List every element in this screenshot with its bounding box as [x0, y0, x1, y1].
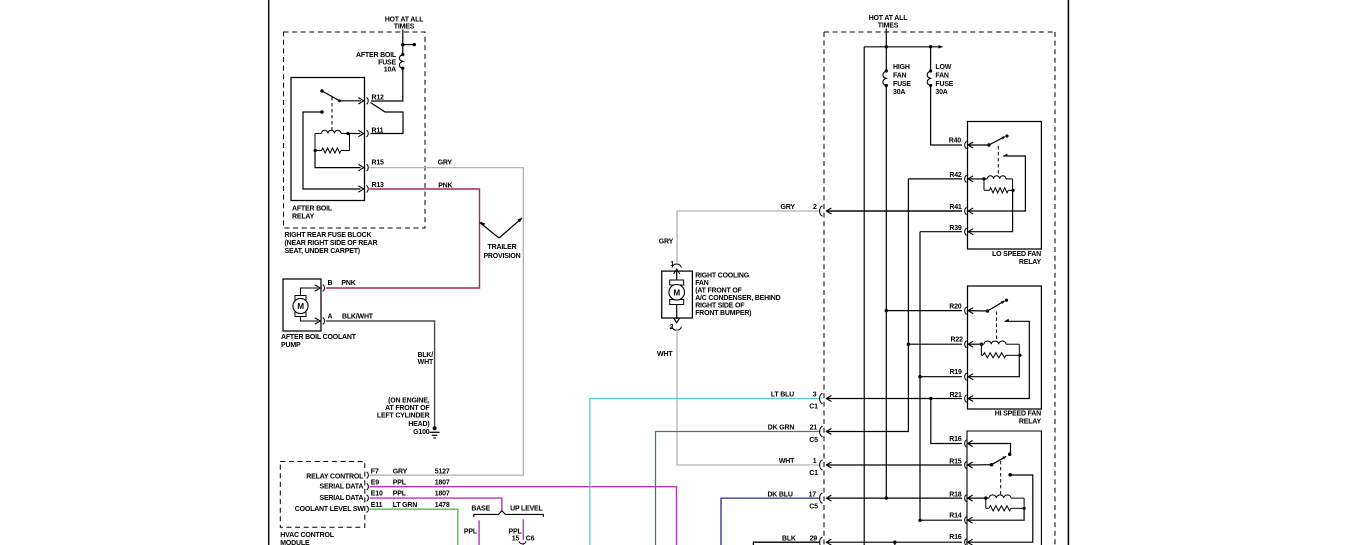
- svg-text:10A: 10A: [384, 66, 396, 73]
- svg-text:R41: R41: [949, 204, 962, 211]
- lo relay pin R41: [965, 208, 967, 215]
- after boil relay: coil left node to R15: [315, 151, 361, 168]
- svg-text:30A: 30A: [893, 89, 905, 96]
- svg-text:FUSE: FUSE: [378, 59, 396, 66]
- svg-text:MODULE: MODULE: [280, 540, 310, 545]
- svg-text:AFTER BOIL: AFTER BOIL: [356, 52, 397, 59]
- svg-text:F7: F7: [371, 468, 379, 475]
- wire: R39 wire: [920, 231, 962, 233]
- hi relay armature dashed: [996, 312, 998, 342]
- svg-text:TIMES: TIMES: [878, 22, 899, 29]
- svg-text:1478: 1478: [435, 502, 450, 509]
- svg-text:LO SPEED FAN: LO SPEED FAN: [992, 251, 1041, 258]
- wire LT GRN: E11 coolant level switch: [370, 509, 458, 545]
- svg-text:C1: C1: [809, 404, 818, 411]
- wire WHT: fan pin 2 to fuse block pin 1: [677, 329, 820, 466]
- svg-text:2: 2: [813, 204, 817, 211]
- third relay NO contact to R16 bottom: [1008, 473, 1012, 477]
- dashed box: HVAC CONTROL MODULE: [280, 462, 365, 528]
- hvac pin E11: [367, 506, 369, 512]
- wire PPL: uplevel branch with C6 pin 15 connector: [522, 519, 524, 540]
- svg-text:PPL: PPL: [464, 528, 478, 535]
- ground G100 symbol: [433, 426, 437, 430]
- svg-text:R16: R16: [949, 436, 962, 443]
- svg-text:R21: R21: [949, 392, 962, 399]
- svg-text:PNK: PNK: [438, 183, 452, 190]
- svg-text:M: M: [297, 302, 304, 311]
- svg-text:FAN: FAN: [893, 73, 907, 80]
- wire PPL: E10 serial data to base/uplevel: [370, 498, 502, 510]
- lo speed fan relay box: [968, 122, 1042, 250]
- svg-text:R12: R12: [372, 95, 385, 102]
- pin R12: [358, 98, 364, 104]
- right cooling fan pin 2: [676, 305, 678, 320]
- page border left: [268, 0, 270, 545]
- svg-text:WHT: WHT: [418, 359, 434, 366]
- svg-text:R40: R40: [949, 138, 962, 145]
- svg-text:BLK/: BLK/: [417, 352, 433, 359]
- svg-text:(ON ENGINE,: (ON ENGINE,: [388, 398, 430, 405]
- fuse block pin 3 C1: [820, 394, 823, 404]
- svg-text:1: 1: [813, 458, 817, 465]
- pump pin A: [315, 318, 321, 324]
- trailer provision taps: [480, 223, 499, 239]
- svg-text:15: 15: [512, 536, 520, 543]
- svg-text:C5: C5: [809, 437, 818, 444]
- dashed box: RIGHT REAR FUSE BLOCK: [284, 32, 426, 228]
- svg-text:BASE: BASE: [471, 505, 490, 512]
- lo relay pin R39: [965, 228, 967, 235]
- third relay box: [967, 431, 1041, 545]
- svg-text:LT GRN: LT GRN: [393, 502, 417, 509]
- svg-text:FAN: FAN: [695, 280, 709, 287]
- svg-text:1807: 1807: [435, 480, 450, 487]
- svg-text:G100: G100: [413, 429, 430, 436]
- after boil coolant pump box: [283, 279, 321, 331]
- wire: low fan fuse to R40: [931, 86, 962, 146]
- svg-text:RIGHT REAR FUSE BLOCK: RIGHT REAR FUSE BLOCK: [285, 232, 372, 239]
- svg-text:AFTER BOIL COOLANT: AFTER BOIL COOLANT: [281, 334, 357, 341]
- svg-text:BLK: BLK: [782, 535, 796, 542]
- svg-text:LOW: LOW: [935, 64, 951, 71]
- wire DK GRN to pin 21: [656, 432, 821, 545]
- svg-text:M: M: [673, 289, 680, 298]
- svg-text:E11: E11: [371, 502, 383, 509]
- wire: R39/R19/R14 branch: [919, 232, 921, 521]
- hvac pin E9: [367, 484, 369, 490]
- fuse block pin 21 C5: [820, 427, 823, 437]
- base/uplevel brace: [474, 511, 544, 517]
- svg-text:(NEAR RIGHT SIDE OF REAR: (NEAR RIGHT SIDE OF REAR: [285, 240, 378, 247]
- wire PNK: R13 to pump B: [326, 189, 480, 288]
- svg-text:A/C CONDENSER, BEHIND: A/C CONDENSER, BEHIND: [695, 295, 780, 302]
- svg-text:LEFT CYLINDER: LEFT CYLINDER: [377, 413, 430, 420]
- svg-text:RIGHT COOLING: RIGHT COOLING: [695, 272, 750, 279]
- after boil relay: coil with parallel resistor: [315, 133, 322, 135]
- third relay armature dashed: [1000, 461, 1002, 495]
- wire: R42/R22 control branch: [907, 343, 910, 346]
- wire: battery feed down to after boil fuse: [402, 30, 404, 54]
- svg-text:TRAILER: TRAILER: [488, 244, 517, 251]
- svg-text:RELAY: RELAY: [1019, 259, 1042, 266]
- svg-text:RELAY: RELAY: [1019, 419, 1042, 426]
- hi relay wires external: [886, 310, 962, 312]
- splice with dots: [403, 44, 415, 46]
- svg-text:COOLANT LEVEL SW: COOLANT LEVEL SW: [295, 506, 365, 513]
- svg-text:C1: C1: [809, 470, 818, 477]
- svg-text:E10: E10: [371, 491, 383, 498]
- lo relay switch: [968, 144, 989, 146]
- svg-text:HOT AT ALL: HOT AT ALL: [385, 16, 424, 23]
- svg-text:R14: R14: [949, 512, 962, 519]
- svg-text:HVAC CONTROL: HVAC CONTROL: [280, 532, 334, 539]
- svg-text:C6: C6: [526, 536, 535, 543]
- svg-text:RELAY CONTROL: RELAY CONTROL: [306, 473, 364, 480]
- fuse block pin 29: [820, 537, 823, 545]
- svg-text:C5: C5: [809, 503, 818, 510]
- wire PPL: base branch: [478, 520, 480, 545]
- svg-text:HIGH: HIGH: [893, 64, 910, 71]
- svg-text:AT FRONT OF: AT FRONT OF: [385, 405, 430, 412]
- third relay R14 wire external: [920, 519, 962, 521]
- svg-text:A: A: [328, 313, 333, 320]
- wire BLK/WHT: pump A to ground G100: [326, 321, 435, 427]
- wire: high fan fuse to R20 and R18: [885, 86, 887, 499]
- after boil relay: armature dashed link: [331, 97, 333, 133]
- svg-text:R15: R15: [949, 458, 962, 465]
- svg-text:UP LEVEL: UP LEVEL: [510, 505, 543, 512]
- svg-text:1: 1: [670, 261, 674, 268]
- pump internal wires: [301, 288, 319, 296]
- wire: jumper R12 to R11: [371, 103, 404, 134]
- svg-text:2: 2: [670, 324, 674, 331]
- svg-text:(AT FRONT OF: (AT FRONT OF: [695, 287, 742, 294]
- svg-text:R42: R42: [949, 172, 962, 179]
- third relay pin R16 top: [965, 440, 967, 447]
- svg-text:21: 21: [810, 425, 818, 432]
- lo relay armature dashed: [997, 146, 999, 176]
- hi relay pin R22: [965, 341, 967, 348]
- lo relay pin R40: [965, 142, 967, 149]
- wire: R42 wire: [908, 178, 962, 180]
- fuse block pin 17 C5: [820, 493, 823, 503]
- feed bus with arrow: [864, 46, 939, 48]
- svg-text:PUMP: PUMP: [281, 342, 301, 349]
- dashed box: underhood fuse block: [823, 32, 825, 545]
- svg-text:30A: 30A: [935, 89, 947, 96]
- wire: battery feed right section: [885, 29, 887, 47]
- svg-text:GRY: GRY: [393, 468, 408, 475]
- fuse block pin 2 connector: [820, 206, 823, 216]
- right cooling fan pin 1: [672, 264, 681, 268]
- pump pin B: [315, 285, 321, 291]
- svg-text:GRY: GRY: [780, 204, 795, 211]
- third relay coil to R14: [968, 508, 1025, 520]
- third relay switch and R16 link: [968, 444, 1011, 454]
- svg-text:WHT: WHT: [657, 351, 673, 358]
- pin R15: [358, 164, 364, 170]
- svg-text:B: B: [328, 280, 333, 287]
- wire: R21 to R16 branch: [931, 399, 962, 444]
- third relay coil: [968, 497, 986, 499]
- wire: fuse to relay pin R12: [371, 68, 403, 101]
- wire DK BLU to pin 17: [721, 498, 820, 545]
- right cooling fan box: [662, 271, 693, 318]
- pin R11: [358, 130, 364, 136]
- svg-text:R18: R18: [949, 492, 962, 499]
- svg-text:SERIAL DATA: SERIAL DATA: [319, 484, 363, 491]
- hi relay switch: [968, 310, 987, 312]
- svg-text:AFTER BOIL: AFTER BOIL: [292, 206, 333, 213]
- svg-text:R20: R20: [949, 303, 962, 310]
- after boil relay: coil right node to R11: [350, 133, 361, 135]
- svg-text:R13: R13: [372, 182, 385, 189]
- after boil relay: switch contact and arm: [320, 89, 323, 92]
- svg-text:FAN: FAN: [935, 73, 949, 80]
- wire BLK to pin 29: [753, 542, 820, 545]
- svg-text:GRY: GRY: [438, 160, 453, 167]
- svg-text:GRY: GRY: [659, 238, 674, 245]
- svg-text:5127: 5127: [435, 468, 450, 475]
- svg-text:E9: E9: [371, 480, 379, 487]
- svg-text:R22: R22: [951, 337, 964, 344]
- wire PPL: E9 serial data: [370, 487, 677, 545]
- third relay pin R16 bottom: [965, 539, 967, 545]
- wire: R41 output: [826, 210, 962, 212]
- svg-text:FRONT BUMPER): FRONT BUMPER): [695, 310, 751, 317]
- lo relay coil: [968, 178, 984, 180]
- fuse: AFTER BOIL FUSE 10A: [399, 55, 402, 69]
- wire LT BLU to pin 3: [590, 399, 821, 545]
- wire GRY: R15 to HVAC F7: [369, 168, 523, 476]
- svg-text:PPL: PPL: [393, 491, 407, 498]
- fuse block pin 1 C1: [820, 460, 823, 470]
- svg-text:PPL: PPL: [509, 528, 523, 535]
- lo relay NO contact to R41: [1003, 154, 1008, 157]
- third relay pin R18: [965, 495, 967, 502]
- hi relay pin R19: [965, 373, 967, 380]
- svg-text:PROVISION: PROVISION: [483, 253, 520, 260]
- svg-text:TIMES: TIMES: [394, 24, 415, 31]
- fuse: HIGH FAN FUSE 30A: [885, 47, 887, 71]
- svg-text:FUSE: FUSE: [935, 81, 953, 88]
- hi relay coil to R19: [968, 355, 1019, 376]
- svg-text:29: 29: [810, 535, 818, 542]
- svg-text:FUSE: FUSE: [893, 81, 911, 88]
- svg-text:R15: R15: [372, 159, 385, 166]
- hi relay pin R20: [965, 307, 967, 314]
- svg-text:HEAD): HEAD): [408, 421, 429, 428]
- svg-text:HI SPEED FAN: HI SPEED FAN: [995, 411, 1041, 418]
- svg-text:PNK: PNK: [341, 280, 355, 287]
- wire WHT internal to R15 relay 3: [826, 464, 962, 466]
- fan motor M: [670, 280, 684, 285]
- wire GRY: fan feed from fuse block pin 2: [677, 211, 820, 263]
- svg-text:R16: R16: [949, 534, 962, 541]
- third relay pin R15: [965, 462, 967, 469]
- lo relay coil to R39: [968, 190, 1013, 231]
- svg-text:RIGHT SIDE OF: RIGHT SIDE OF: [695, 302, 745, 309]
- svg-text:PPL: PPL: [393, 480, 407, 487]
- after boil relay box: [291, 78, 365, 201]
- page border right: [1067, 0, 1069, 545]
- hvac pin E10: [367, 495, 369, 501]
- svg-text:DK GRN: DK GRN: [768, 425, 795, 432]
- svg-text:LT BLU: LT BLU: [771, 392, 794, 399]
- pump motor M: [295, 296, 306, 301]
- svg-text:17: 17: [809, 491, 817, 498]
- svg-text:3: 3: [813, 392, 817, 399]
- svg-text:SEAT, UNDER CARPET): SEAT, UNDER CARPET): [285, 248, 360, 255]
- svg-text:SERIAL DATA: SERIAL DATA: [319, 495, 363, 502]
- svg-text:DK BLU: DK BLU: [767, 491, 792, 498]
- svg-text:WHT: WHT: [779, 458, 795, 465]
- hi relay pin R21: [965, 395, 967, 402]
- svg-text:HOT AT ALL: HOT AT ALL: [869, 15, 908, 22]
- hi speed fan relay box: [968, 286, 1042, 409]
- third relay pin R14: [965, 517, 967, 524]
- svg-text:1807: 1807: [435, 491, 450, 498]
- fuse: LOW FAN FUSE 30A: [930, 47, 932, 71]
- pin R13: [358, 186, 364, 192]
- wire: feed down left branch: [863, 47, 865, 545]
- svg-text:R39: R39: [949, 225, 962, 232]
- svg-text:BLK/WHT: BLK/WHT: [342, 313, 374, 320]
- after boil relay: second contact to R13: [320, 110, 323, 113]
- svg-text:RELAY: RELAY: [292, 214, 315, 221]
- hi relay coil: [968, 343, 981, 345]
- svg-text:R19: R19: [949, 369, 962, 376]
- hi relay NO contact to R21: [1005, 319, 1010, 322]
- hvac pin F7: [367, 472, 369, 478]
- lo relay pin R42: [965, 175, 967, 182]
